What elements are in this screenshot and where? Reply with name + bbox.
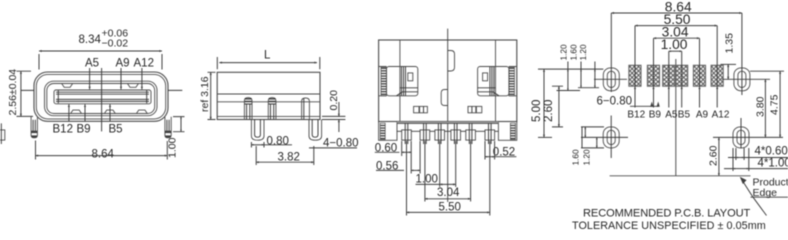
- product edge callout: [742, 179, 788, 215]
- pad leader lines: [635, 26, 717, 86]
- svg-text:B5: B5: [109, 124, 123, 136]
- svg-text:4*0.60: 4*0.60: [755, 146, 788, 158]
- leader A12: [141, 68, 143, 89]
- oval hole top-right: [734, 68, 750, 91]
- right window pair: [468, 106, 476, 112]
- svg-text:1.20: 1.20: [559, 44, 568, 60]
- leader B12: [68, 104, 70, 121]
- left window pair: [414, 106, 419, 112]
- center tab lower: [441, 90, 448, 106]
- tongue contact lines: [56, 91, 149, 104]
- svg-text:5.50: 5.50: [439, 202, 461, 214]
- svg-text:A9: A9: [696, 110, 709, 121]
- svg-text:RECOMMENDED P.C.B. LAYOUT: RECOMMENDED P.C.B. LAYOUT: [583, 208, 751, 220]
- product edge line: [610, 175, 751, 177]
- svg-text:Edge: Edge: [753, 187, 778, 199]
- svg-text:1.00: 1.00: [167, 137, 179, 158]
- pin 6: [485, 123, 495, 144]
- leg A (through-hole): [251, 120, 264, 141]
- svg-text:0.20: 0.20: [328, 90, 340, 111]
- pad B9: [647, 65, 659, 86]
- leader B9: [84, 104, 86, 121]
- pin 1: [0, 123, 5, 144]
- right contact cluster (mirrored): [478, 67, 517, 96]
- leader A5: [89, 68, 91, 89]
- svg-text:1.20: 1.20: [579, 44, 588, 60]
- svg-text:5.00: 5.00: [531, 100, 543, 122]
- body inner line mid: [217, 101, 320, 103]
- svg-text:8.64: 8.64: [92, 149, 115, 161]
- svg-text:1.00: 1.00: [416, 174, 438, 186]
- pin tie bar: [397, 130, 499, 132]
- right leg: [165, 117, 171, 138]
- pad A9: [693, 65, 705, 86]
- svg-text:2.60: 2.60: [708, 145, 720, 166]
- leg B (through-hole): [309, 120, 322, 141]
- pad A5: [663, 65, 675, 86]
- svg-text:A9: A9: [116, 58, 130, 70]
- pin 3: [435, 123, 445, 144]
- svg-text:8.34: 8.34: [79, 34, 102, 46]
- pin 5: [466, 123, 476, 144]
- svg-text:3.04: 3.04: [437, 187, 460, 199]
- right foot: [498, 122, 516, 141]
- svg-text:3.82: 3.82: [278, 152, 300, 164]
- svg-text:B9: B9: [77, 124, 91, 136]
- svg-text:B5: B5: [678, 110, 691, 121]
- svg-text:−0.02: −0.02: [102, 38, 129, 50]
- pad B12: [629, 65, 641, 86]
- svg-text:1.00: 1.00: [661, 37, 688, 52]
- bottom bump 1: [71, 110, 82, 113]
- pin P2: [268, 98, 276, 120]
- pin 2: [420, 123, 430, 144]
- svg-text:2.60: 2.60: [543, 100, 555, 122]
- left leg: [31, 117, 37, 138]
- svg-text:4.75: 4.75: [769, 94, 781, 115]
- oval hole bottom-right: [733, 127, 749, 148]
- pin 4: [451, 123, 461, 144]
- svg-text:3.80: 3.80: [755, 96, 767, 117]
- bottom view outer shell: [379, 40, 517, 122]
- shell bottom edge (thick): [397, 122, 498, 124]
- inner vertical wall left: [399, 40, 401, 122]
- svg-text:1.60: 1.60: [569, 44, 578, 60]
- inner vertical wall right: [495, 40, 497, 122]
- svg-text:B12: B12: [53, 124, 73, 136]
- body inner line upper: [217, 93, 320, 95]
- front view inner shell line: [36, 74, 165, 119]
- leader A9: [120, 68, 122, 89]
- center tab upper: [448, 51, 455, 72]
- svg-text:L: L: [264, 50, 271, 62]
- front view outer shell: [34, 72, 168, 121]
- pin P1: [244, 98, 252, 120]
- svg-text:1.60: 1.60: [572, 149, 581, 165]
- left contact cluster: [379, 67, 418, 96]
- body inner line lower: [217, 115, 320, 117]
- pad B5: [676, 65, 688, 86]
- pad A12: [711, 65, 723, 86]
- svg-text:B12: B12: [627, 110, 645, 121]
- top latch bump left: [62, 84, 73, 88]
- bottom bump 2: [105, 110, 116, 113]
- pin P3: [302, 98, 310, 120]
- vertical center line: [101, 68, 103, 131]
- cavity opening inner: [47, 84, 155, 114]
- oval hole bottom-left: [603, 127, 619, 148]
- tongue: [54, 90, 151, 104]
- tongue centerline extensions: [21, 89, 183, 91]
- bottom bump 3: [137, 110, 148, 113]
- svg-text:ref 3.16: ref 3.16: [199, 76, 211, 112]
- cavity opening outer: [45, 81, 158, 116]
- left foot: [379, 122, 397, 141]
- svg-text:1.35: 1.35: [724, 33, 736, 54]
- svg-text:B9: B9: [649, 110, 662, 121]
- svg-text:A5: A5: [665, 110, 678, 121]
- svg-text:2.56±0.04: 2.56±0.04: [7, 69, 19, 116]
- svg-text:A5: A5: [85, 58, 99, 70]
- svg-text:6−0.80: 6−0.80: [597, 96, 633, 108]
- svg-text:0.80: 0.80: [267, 136, 289, 148]
- leader B5: [109, 104, 111, 121]
- top latch bump right: [128, 84, 139, 88]
- PCB center line: [675, 59, 677, 176]
- oval hole top-left: [603, 68, 619, 91]
- svg-text:4*1.00: 4*1.00: [758, 158, 788, 170]
- side view body: [217, 72, 320, 119]
- svg-text:A12: A12: [134, 58, 154, 70]
- svg-text:1.20: 1.20: [582, 149, 591, 165]
- svg-text:TOLERANCE UNSPECIFIED ± 0.05mm: TOLERANCE UNSPECIFIED ± 0.05mm: [572, 220, 766, 232]
- svg-text:A12: A12: [712, 110, 730, 121]
- center line: [447, 29, 449, 202]
